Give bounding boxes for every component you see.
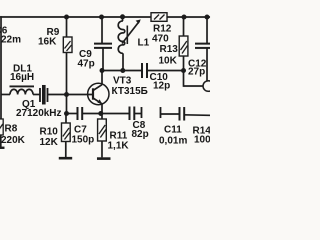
node top C12 [205, 15, 210, 20]
node top C9 [99, 14, 104, 19]
terminal circle [203, 81, 214, 92]
svg-text:L1: L1 [138, 38, 150, 49]
svg-text:12K: 12K [39, 137, 58, 148]
svg-text:10K: 10K [159, 56, 178, 67]
svg-text:47p: 47p [78, 58, 95, 69]
svg-text:27p: 27p [188, 67, 205, 78]
svg-text:470: 470 [152, 34, 169, 45]
wire DL1 to crystal [33, 93, 40, 95]
inductor L1 [118, 17, 141, 71]
wire emitter down [101, 103, 103, 113]
svg-text:R13: R13 [160, 44, 179, 55]
node top R13 [182, 15, 187, 20]
capacitor C7 [66, 107, 100, 120]
node collector L1 [120, 68, 125, 73]
resistor R9 [63, 37, 72, 53]
node C7 left [64, 111, 69, 116]
node top L1 [120, 14, 125, 19]
resistor R13 [179, 36, 188, 56]
svg-text:VT3: VT3 [113, 76, 132, 87]
wire R10 column [65, 113, 67, 123]
node collector R13 [181, 68, 186, 73]
svg-text:150p: 150p [71, 134, 94, 145]
wire R13 bottom [182, 56, 184, 87]
resistor R12 [151, 13, 167, 22]
capacitor C11 [160, 107, 210, 121]
svg-text:0,01m: 0,01m [159, 136, 187, 147]
inductor DL1 [10, 89, 33, 94]
wire top rail right segment [167, 16, 210, 18]
svg-text:12p: 12p [153, 81, 170, 92]
wire collector rail [102, 69, 142, 71]
node emitter [98, 111, 103, 116]
capacitor C12 [195, 17, 210, 81]
ground below R10 [59, 157, 72, 160]
wire R9 bottom to base node [65, 52, 67, 113]
wire base line [1, 93, 10, 95]
svg-text:16K: 16K [38, 36, 57, 47]
wire R9 column upper [66, 17, 68, 37]
node collector C9 [100, 68, 105, 73]
wire output to terminal [183, 85, 203, 87]
wire R10 to ground [65, 141, 67, 157]
wire crystal to base [47, 93, 92, 95]
transistor VT3 [88, 83, 109, 104]
svg-text:1,1K: 1,1K [107, 141, 129, 152]
crystal Q1 [40, 85, 48, 105]
svg-text:220K: 220K [1, 135, 26, 146]
svg-text:16µH: 16µH [10, 72, 34, 83]
ground below R8 [0, 147, 4, 149]
svg-text:КТ315Б: КТ315Б [111, 86, 147, 97]
svg-text:22m: 22m [1, 34, 21, 45]
capacitor C8 [100, 106, 141, 120]
svg-text:27120kHz: 27120kHz [16, 108, 62, 119]
svg-text:100: 100 [194, 135, 210, 146]
wire R8 to ground [0, 135, 2, 147]
wire left rail [0, 16, 2, 119]
core of DL1 [9, 85, 33, 87]
capacitor C10 [142, 63, 147, 78]
ground below R11 [97, 157, 111, 160]
resistor R10 [61, 123, 70, 142]
capacitor C9 [94, 17, 112, 71]
wire R13 column upper [183, 17, 185, 36]
svg-text:82p: 82p [131, 129, 148, 140]
svg-text:R8: R8 [4, 123, 17, 134]
wire top rail left segment [0, 16, 151, 18]
wire R11 to ground [101, 141, 103, 157]
resistor R11 [98, 113, 107, 141]
svg-text:C11: C11 [164, 125, 182, 136]
wire C10 to R13 node [147, 70, 183, 72]
resistor R8 [0, 119, 3, 135]
svg-text:R10: R10 [39, 126, 58, 137]
node top R9 [64, 14, 69, 19]
wire collector up [101, 70, 103, 84]
node base R9 [64, 92, 69, 97]
